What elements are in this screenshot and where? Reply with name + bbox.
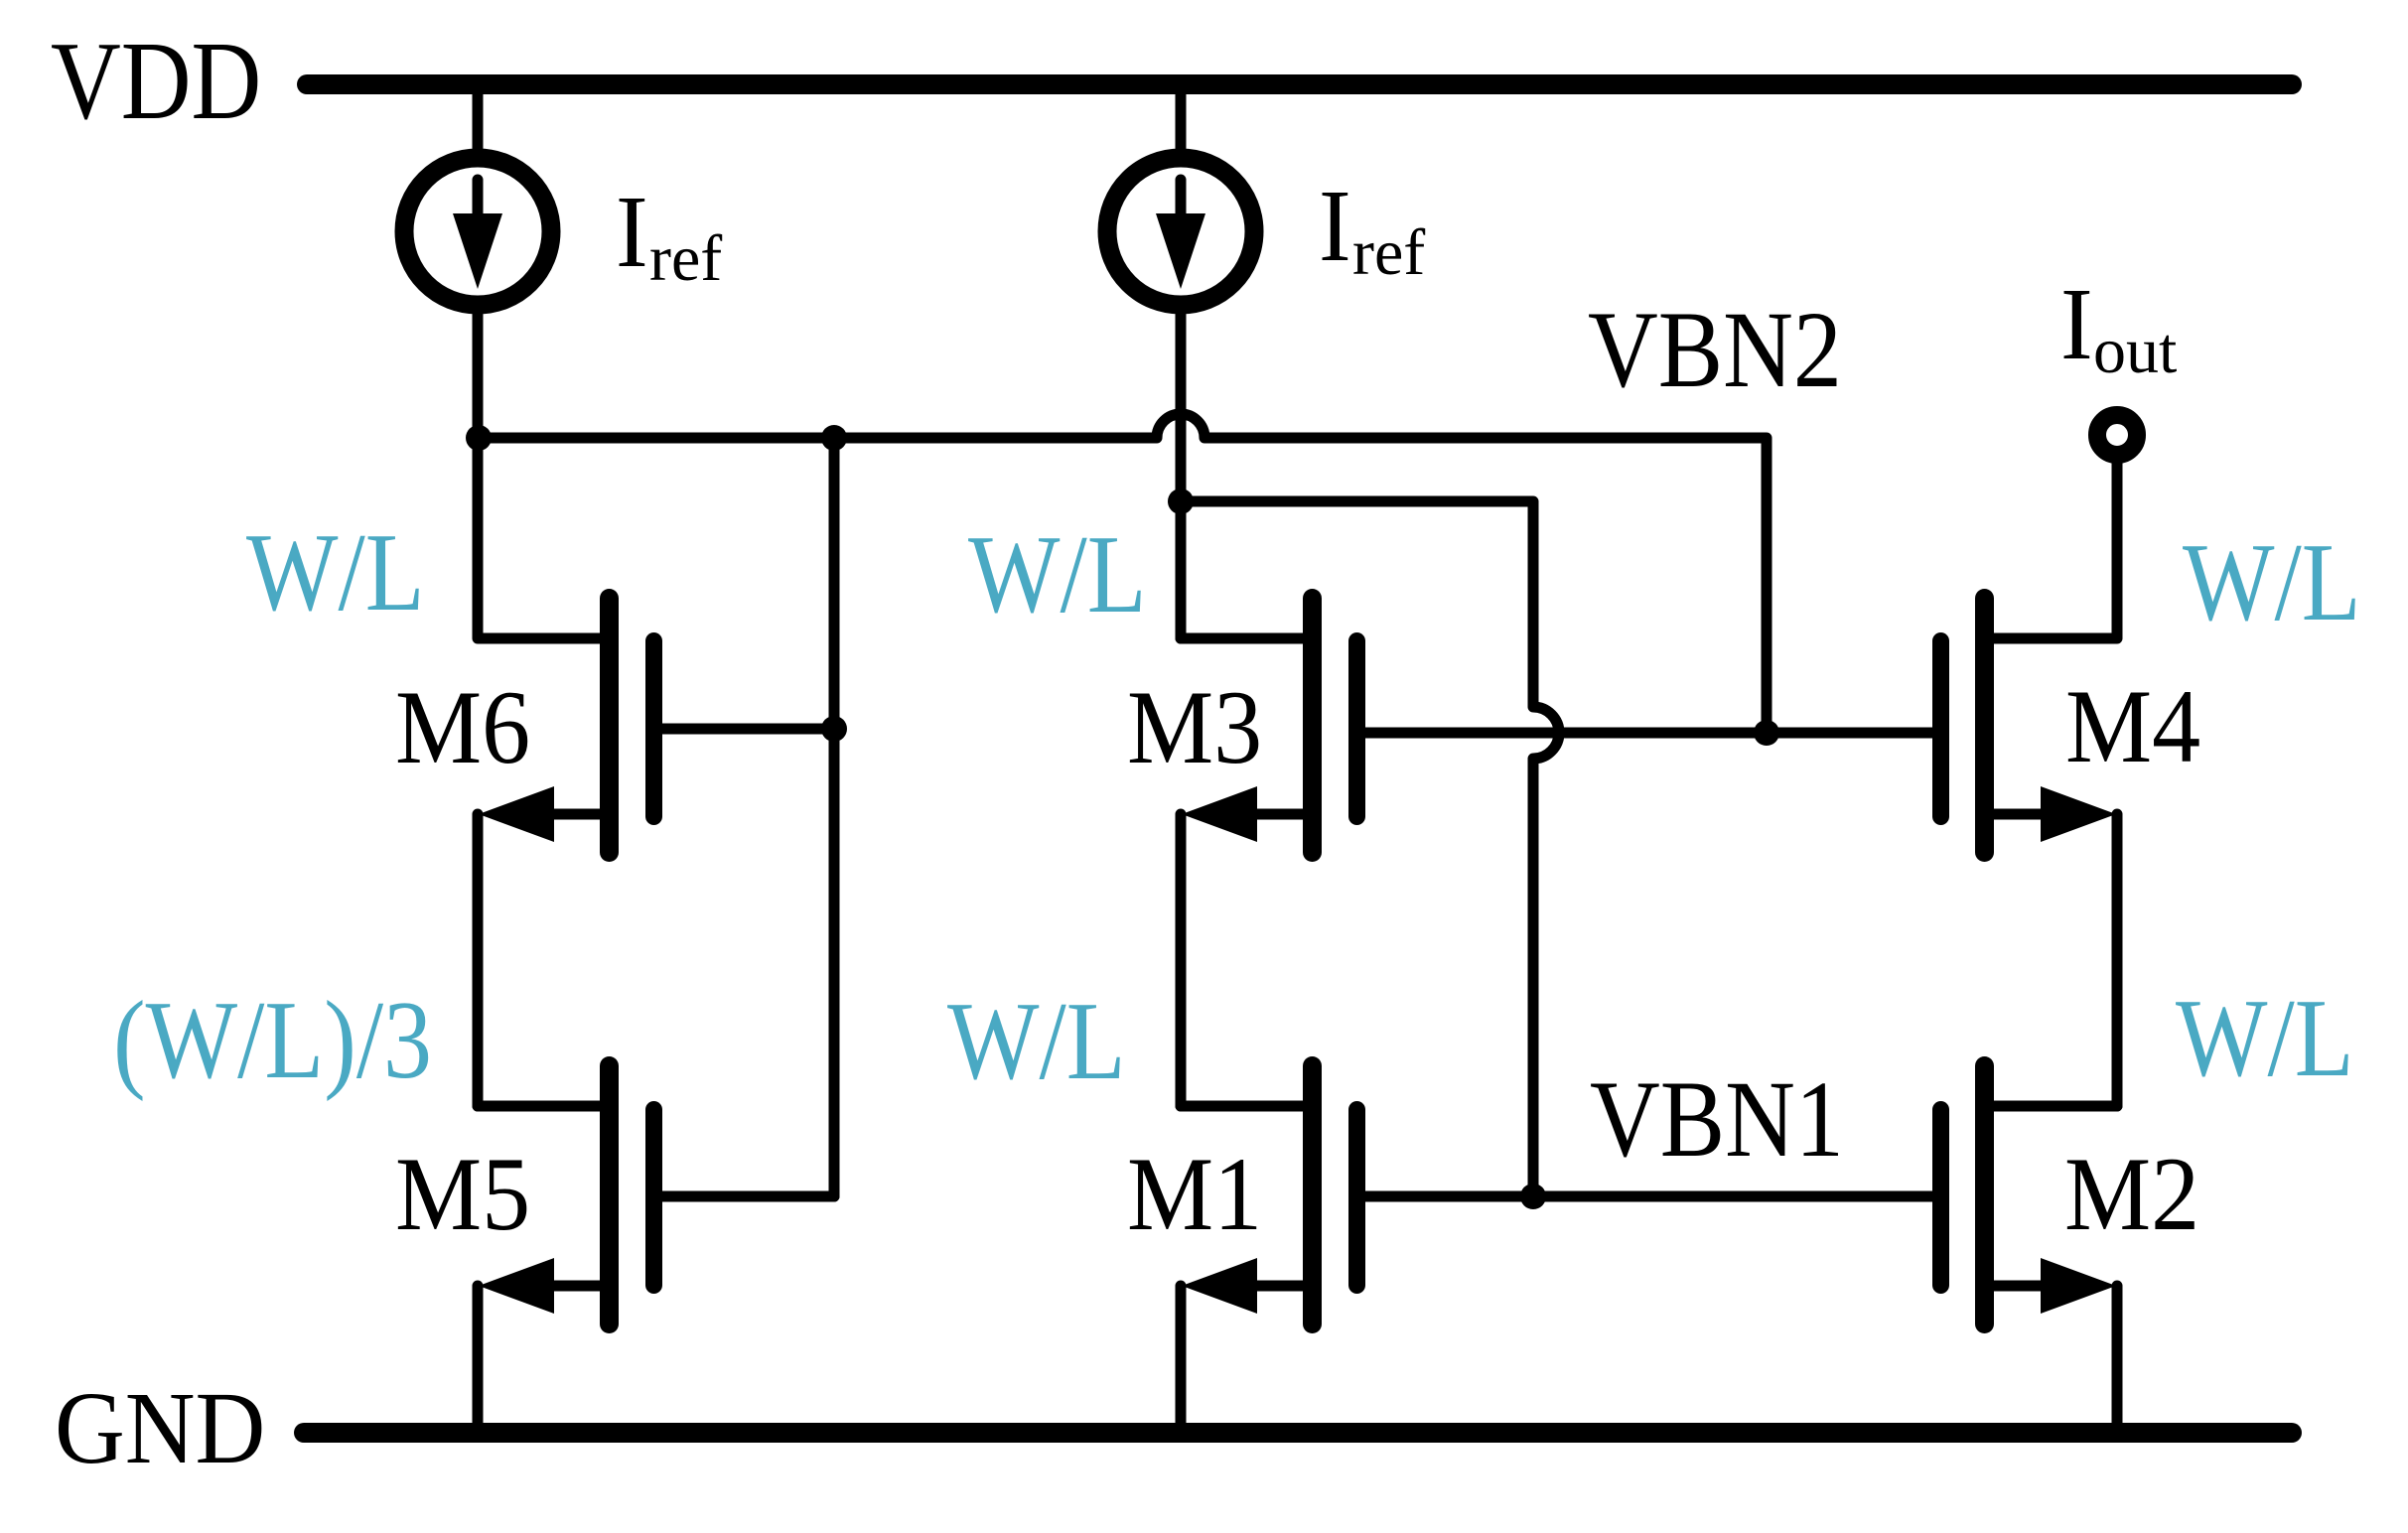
svg-text:I: I	[1319, 168, 1351, 282]
M6 source arrow	[479, 786, 554, 842]
wire M3 drain lead	[1181, 633, 1312, 644]
svg-text:W/L: W/L	[968, 512, 1147, 636]
wire Iout to M4 drain	[1985, 463, 2117, 638]
wire M1 source lead	[1244, 1281, 1313, 1292]
svg-text:VBN2: VBN2	[1588, 289, 1842, 410]
M5 gate bar	[645, 1110, 662, 1286]
wire M5 drain lead	[478, 1101, 609, 1112]
M6 gate bar	[645, 641, 662, 817]
junction node A	[466, 425, 492, 451]
M1 channel bar	[1303, 1066, 1322, 1324]
VDD rail	[307, 74, 2292, 94]
wire M5 gate lead	[654, 1191, 835, 1202]
wire node A to M6 drain	[478, 438, 609, 638]
wire M5 source to GND	[473, 1286, 484, 1423]
svg-text:I: I	[616, 174, 648, 288]
M2 channel bar	[1975, 1066, 1994, 1324]
current source I1 (Iref)	[404, 158, 551, 305]
svg-text:VDD: VDD	[51, 19, 261, 143]
wire node A (VBN2 net) with hop over Iref2 wire, to M3/M4 gate line	[479, 414, 1767, 733]
svg-text:M5: M5	[395, 1137, 530, 1253]
M2 gate bar	[1932, 1110, 1949, 1286]
M3 gate bar	[1348, 641, 1365, 817]
svg-text:W/L: W/L	[2176, 976, 2354, 1100]
transistor M1	[1181, 1066, 1357, 1324]
junction VBN1 at M1 gate line	[1520, 1184, 1546, 1209]
wire VDD to Iref1	[473, 94, 484, 151]
wire M2 source to GND	[2112, 1286, 2123, 1423]
svg-text:M1: M1	[1127, 1137, 1262, 1253]
junction node A / M6-M5 gate branch	[821, 425, 847, 451]
wire M1 drain lead	[1181, 1101, 1312, 1112]
wire VDD to Iref2	[1176, 94, 1187, 151]
GND rail	[304, 1423, 2292, 1443]
svg-text:GND: GND	[55, 1370, 265, 1484]
M1 gate bar	[1348, 1110, 1365, 1286]
svg-text:M4: M4	[2065, 669, 2200, 785]
svg-text:VBN1: VBN1	[1590, 1058, 1844, 1180]
wire M6 gate lead	[654, 724, 835, 735]
M4 channel bar	[1975, 599, 1994, 853]
wire M2 drain lead	[1985, 1101, 2117, 1112]
transistor M3	[1181, 599, 1357, 853]
svg-text:I: I	[2060, 266, 2093, 380]
transistor M4	[1941, 463, 2118, 853]
wire M6 source to M5 drain	[473, 814, 484, 1106]
junction VBN2 at gate line	[1754, 720, 1779, 746]
wire Iref2 to M3 drain	[1176, 314, 1187, 638]
wire M4 source lead	[1985, 809, 2047, 820]
svg-text:out: out	[2093, 315, 2177, 387]
wire Iref1 to node A	[473, 314, 484, 444]
M4 source arrow	[2041, 786, 2116, 842]
terminal Iout	[2097, 415, 2137, 455]
transistor M5	[478, 1066, 834, 1324]
svg-text:M3: M3	[1127, 670, 1262, 786]
M3 channel bar	[1303, 599, 1322, 853]
svg-text:(W/L)/3: (W/L)/3	[113, 978, 432, 1102]
svg-text:W/L: W/L	[2183, 520, 2361, 644]
wire M3 source lead	[1244, 809, 1313, 820]
svg-text:ref: ref	[1352, 216, 1425, 289]
wire gate branch down to M5 gate	[829, 438, 840, 1196]
transistor M2	[1941, 1066, 2118, 1324]
M3 source arrow	[1182, 786, 1257, 842]
wire M5 source lead	[541, 1281, 610, 1292]
M5 channel bar	[600, 1066, 619, 1324]
junction M3 drain / VBN1 branch	[1168, 488, 1194, 514]
M1 source arrow	[1182, 1258, 1257, 1314]
transistor M6	[478, 438, 834, 853]
wire M3/M4 gate line	[1365, 728, 1933, 739]
M6 channel bar	[600, 599, 619, 853]
svg-text:W/L: W/L	[947, 979, 1126, 1103]
M5 source arrow	[479, 1258, 554, 1314]
wire M6 source lead	[541, 809, 610, 820]
M2 source arrow	[2041, 1258, 2116, 1314]
svg-text:M6: M6	[395, 670, 530, 786]
svg-text:ref: ref	[649, 222, 722, 295]
wire M4 source to M2 drain	[2112, 814, 2123, 1106]
current source I2 (Iref)	[1107, 158, 1254, 305]
svg-text:W/L: W/L	[246, 510, 425, 634]
wire M1/M2 gate line (VBN1)	[1365, 1191, 1933, 1202]
M4 gate bar	[1932, 641, 1949, 817]
wire M2 source lead	[1985, 1281, 2047, 1292]
wire M3 drain to M1 gate (VBN1 net) with hop over gate line	[1181, 501, 1559, 1196]
junction M6 gate	[821, 716, 847, 742]
wire M3 source to M1 drain	[1176, 814, 1187, 1106]
svg-text:M2: M2	[2064, 1137, 2199, 1253]
wire M1 source to GND	[1176, 1286, 1187, 1423]
